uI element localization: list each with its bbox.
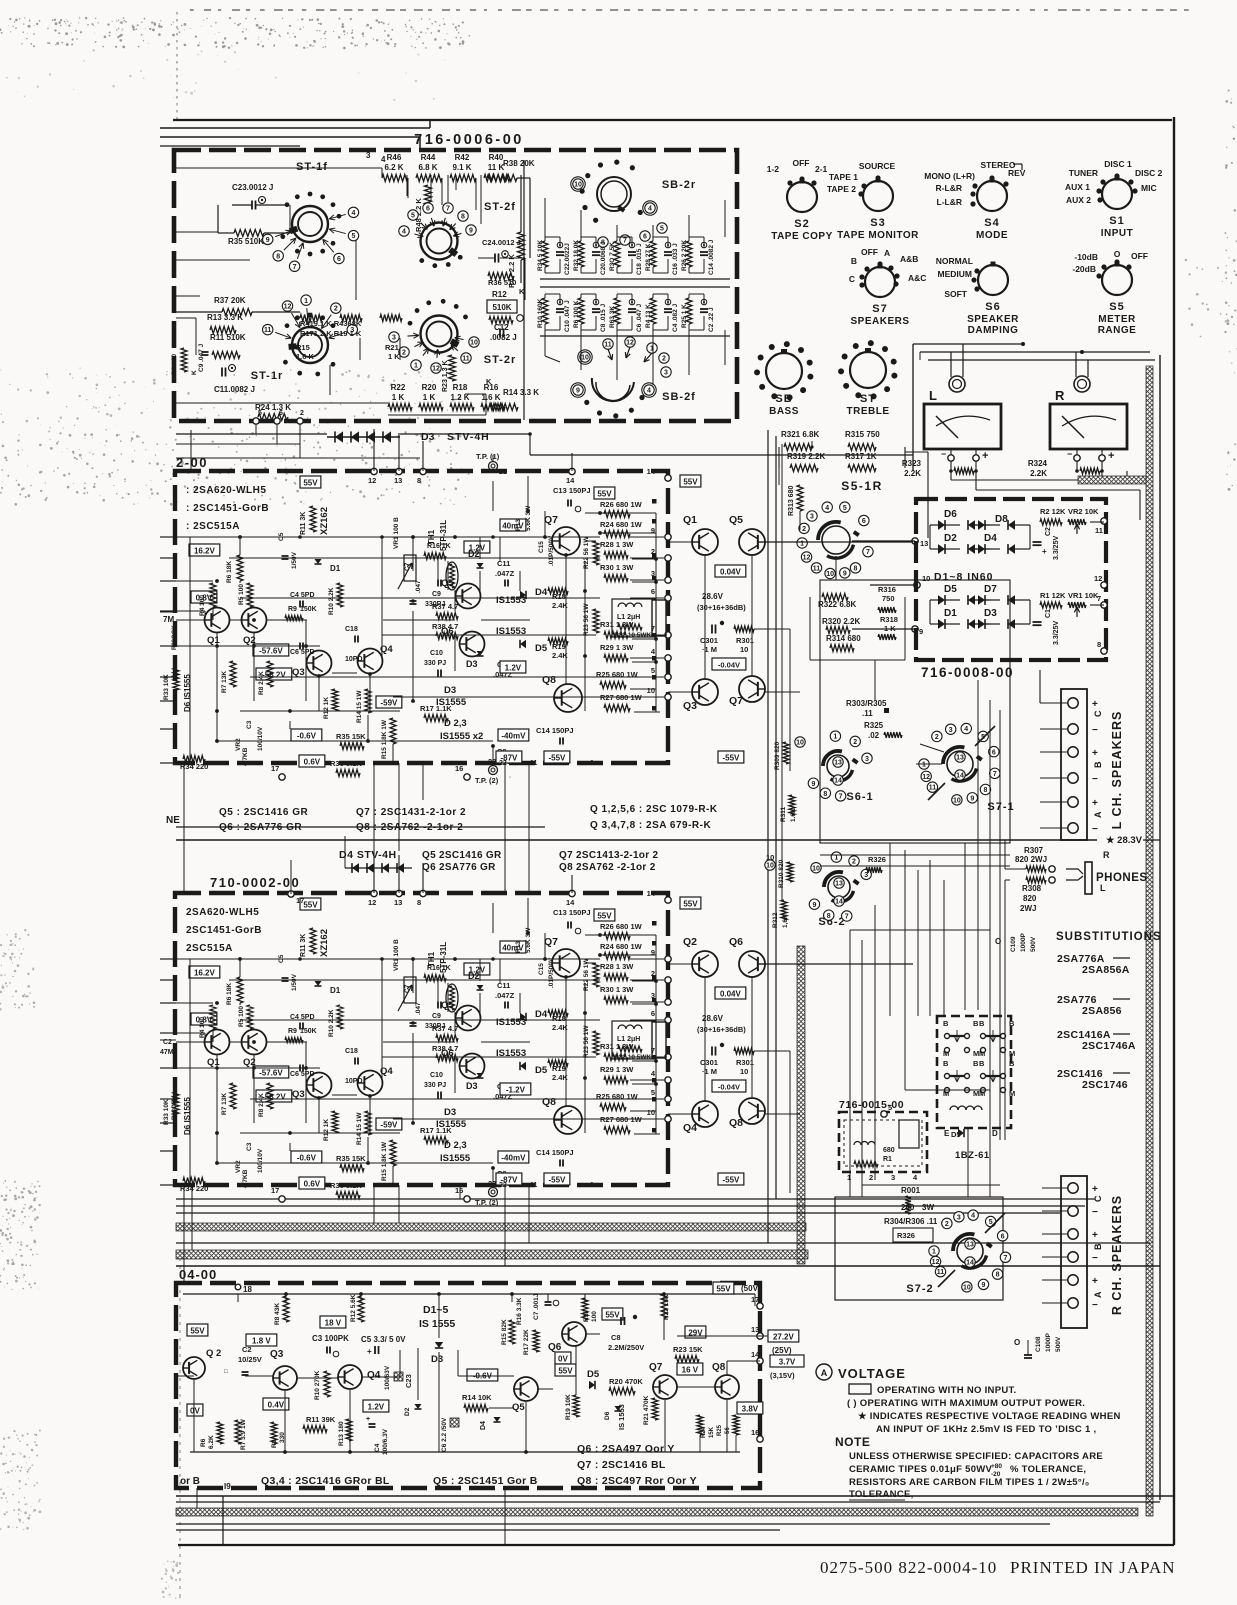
svg-text:C6 5PD: C6 5PD (290, 1071, 315, 1078)
svg-text:R14 15 1W: R14 15 1W (356, 690, 363, 723)
svg-text:TAPE 1: TAPE 1 (829, 172, 858, 182)
svg-text:.11: .11 (862, 709, 873, 718)
svg-text:9: 9 (576, 388, 580, 395)
svg-text:2: 2 (853, 739, 857, 746)
svg-text:Q5: Q5 (512, 1402, 525, 1413)
svg-text:3.7V: 3.7V (779, 1358, 796, 1367)
svg-text:14: 14 (647, 889, 656, 898)
svg-text:55V: 55V (716, 1285, 731, 1294)
svg-text:SB: SB (775, 393, 792, 405)
svg-text:R40: R40 (489, 153, 504, 162)
svg-text:R36 5.1K: R36 5.1K (330, 1181, 362, 1190)
svg-text:XZ162: XZ162 (319, 929, 330, 957)
svg-text:2.2K: 2.2K (904, 469, 921, 478)
svg-text:55V: 55V (303, 479, 318, 488)
svg-text:1000P: 1000P (1045, 1333, 1052, 1352)
svg-text:9: 9 (982, 1282, 986, 1289)
svg-text:-0.6V: -0.6V (297, 732, 317, 741)
svg-text:S1: S1 (1109, 215, 1124, 227)
svg-text:R-L&R: R-L&R (936, 183, 962, 193)
svg-text:R6 18K: R6 18K (226, 983, 233, 1005)
svg-text:R28 1 3W: R28 1 3W (600, 540, 634, 549)
svg-text:.047: .047 (415, 1002, 422, 1015)
svg-text:L CH. SPEAKERS: L CH. SPEAKERS (1110, 711, 1124, 830)
svg-text:( ) OPERATING WITH MAX: ( ) OPERATING WITH MAXIMUM OUTPUT POWER. (847, 1398, 1085, 1409)
svg-text:R20: R20 (422, 383, 437, 392)
svg-text:100/10V: 100/10V (257, 1148, 264, 1173)
svg-text:D4 STV-4H: D4 STV-4H (339, 849, 397, 861)
svg-text:11: 11 (530, 1182, 538, 1189)
svg-text:C6 5PD: C6 5PD (290, 649, 315, 656)
svg-text:1: 1 (834, 855, 838, 862)
svg-text:-20dB: -20dB (1072, 264, 1096, 274)
svg-text:R35 15K: R35 15K (336, 732, 366, 741)
svg-text:7: 7 (623, 238, 627, 245)
svg-text:16: 16 (455, 1186, 463, 1195)
svg-text:12: 12 (1094, 574, 1102, 583)
svg-text:C13 150PJ: C13 150PJ (553, 486, 591, 495)
svg-text:11: 11 (462, 356, 470, 363)
svg-text:R46: R46 (387, 153, 402, 162)
svg-text:-55V: -55V (548, 754, 566, 763)
svg-text:R37 4.7: R37 4.7 (432, 1024, 458, 1033)
svg-text:(25V): (25V) (772, 1346, 792, 1355)
svg-text:MIC: MIC (1141, 183, 1157, 193)
svg-text:7: 7 (866, 549, 870, 556)
svg-text:-55V: -55V (548, 1176, 566, 1185)
svg-text:IS1555: IS1555 (436, 697, 467, 708)
svg-text:6: 6 (426, 206, 430, 213)
svg-text:.047Z: .047Z (495, 569, 515, 578)
svg-text:R28 27 K: R28 27 K (645, 243, 652, 271)
svg-text:1BZ-61: 1BZ-61 (955, 1150, 990, 1161)
svg-text:R26 680 1W: R26 680 1W (600, 922, 643, 931)
svg-text:14: 14 (647, 467, 656, 476)
svg-text:27.2V: 27.2V (773, 1333, 795, 1342)
svg-text:-0.04V: -0.04V (718, 1083, 740, 1092)
svg-text:R24 680 1W: R24 680 1W (600, 942, 643, 951)
svg-text:9: 9 (970, 795, 974, 802)
svg-text:K: K (191, 370, 198, 375)
svg-text:R15 82K: R15 82K (501, 1319, 508, 1345)
svg-text:R15 1.8K 1W: R15 1.8K 1W (381, 719, 388, 759)
svg-text:R325: R325 (864, 721, 884, 730)
svg-text:13: 13 (956, 755, 964, 762)
svg-text:6: 6 (279, 410, 283, 417)
svg-text:-57.6V: -57.6V (259, 647, 283, 656)
svg-text:2.2K: 2.2K (1030, 469, 1047, 478)
svg-text:R304/R306 .11: R304/R306 .11 (884, 1217, 938, 1226)
svg-text:3: 3 (392, 335, 396, 342)
svg-text:R313 680: R313 680 (788, 486, 795, 516)
svg-text:5: 5 (258, 410, 262, 417)
svg-text:1.2V: 1.2V (505, 664, 522, 673)
svg-text:S7-2: S7-2 (906, 1283, 933, 1295)
svg-text:C14 150PJ: C14 150PJ (536, 1148, 574, 1157)
svg-text:Q8: Q8 (729, 1117, 743, 1129)
svg-text:330 PJ: 330 PJ (424, 1082, 446, 1089)
svg-text:+: + (1092, 748, 1098, 759)
svg-text:A: A (1093, 811, 1103, 818)
svg-text:D5: D5 (951, 1130, 961, 1139)
svg-text:R317 1K: R317 1K (845, 452, 877, 461)
svg-text:C8 .015 J: C8 .015 J (600, 303, 607, 332)
svg-text:13: 13 (394, 898, 402, 907)
svg-text:R326: R326 (868, 855, 886, 864)
svg-text:14: 14 (834, 778, 842, 785)
svg-text:DISC 2: DISC 2 (1135, 168, 1163, 178)
svg-text:R24 680 1W: R24 680 1W (600, 520, 643, 529)
svg-text:8: 8 (854, 565, 858, 572)
svg-text:1: 1 (922, 762, 926, 769)
svg-text:R35 510K: R35 510K (228, 237, 264, 246)
svg-text:12: 12 (368, 476, 376, 485)
svg-text:3: 3 (810, 514, 814, 521)
svg-text:6: 6 (651, 587, 655, 596)
svg-text:NORMAL: NORMAL (936, 256, 973, 266)
svg-text:2: 2 (300, 410, 304, 417)
svg-text:R171.2 K R19 1 K: R171.2 K R19 1 K (300, 329, 362, 338)
svg-text:Q6: Q6 (729, 936, 743, 948)
svg-text:13: 13 (834, 760, 842, 767)
svg-text:O: O (1114, 249, 1121, 259)
svg-text:(3,15V): (3,15V) (770, 1371, 795, 1380)
svg-text:D2: D2 (468, 971, 480, 981)
svg-text:0.6V: 0.6V (304, 1180, 321, 1189)
svg-text:L1 2μH: L1 2μH (617, 614, 640, 621)
svg-text:R23 1,3 K: R23 1,3 K (442, 360, 449, 392)
svg-text:6: 6 (337, 256, 341, 263)
svg-text:C: C (1093, 1195, 1103, 1202)
svg-text:10: 10 (581, 355, 589, 362)
svg-text:12: 12 (932, 1259, 940, 1266)
svg-text:Q8 2SA762 -2-1or 2: Q8 2SA762 -2-1or 2 (559, 862, 656, 873)
svg-text:TAPE MONITOR: TAPE MONITOR (837, 230, 919, 241)
svg-text:Q1: Q1 (683, 514, 697, 526)
svg-text:9.1 K: 9.1 K (452, 163, 471, 172)
svg-text:-40mV: -40mV (501, 732, 526, 741)
svg-text:AUX 2: AUX 2 (1066, 195, 1091, 205)
svg-text:2SC1746: 2SC1746 (1082, 1079, 1128, 1091)
svg-text:4: 4 (402, 229, 406, 236)
svg-text:9: 9 (812, 902, 816, 909)
svg-text:R315 750: R315 750 (845, 430, 880, 439)
svg-text:Q 1,2,5,6 : 2SC 1079-R-K: Q 1,2,5,6 : 2SC 1079-R-K (590, 804, 718, 815)
svg-text:C12: C12 (494, 323, 509, 332)
svg-text:5: 5 (888, 1103, 892, 1112)
svg-text:5: 5 (411, 213, 415, 220)
svg-text:C11: C11 (497, 559, 510, 568)
svg-text:R301: R301 (736, 1058, 754, 1067)
svg-text:.047: .047 (415, 580, 422, 593)
svg-text:SPEAKERS: SPEAKERS (850, 316, 909, 327)
svg-text:6: 6 (992, 749, 996, 756)
svg-text:R22: R22 (391, 383, 406, 392)
svg-text:C108: C108 (1035, 1336, 1042, 1352)
svg-text:2: 2 (334, 306, 338, 313)
svg-text:0.04V: 0.04V (720, 568, 742, 577)
svg-text:C20.0068 J: C20.0068 J (600, 241, 607, 275)
svg-text:VR1 100 B: VR1 100 B (393, 939, 400, 971)
svg-text:.047Z: .047Z (495, 991, 515, 1000)
svg-text:R7 13K: R7 13K (221, 1093, 228, 1115)
svg-text:100/6.3V: 100/6.3V (382, 1428, 389, 1455)
svg-text:10: 10 (470, 340, 478, 347)
svg-text:S6: S6 (985, 301, 1000, 313)
svg-text:R16 3.3K: R16 3.3K (516, 1297, 523, 1325)
svg-text:820 2WJ: 820 2WJ (1015, 855, 1047, 864)
svg-text:716-0008-00: 716-0008-00 (921, 665, 1014, 680)
svg-text:(30+16+36dB): (30+16+36dB) (697, 1025, 746, 1034)
svg-text:4: 4 (352, 210, 356, 217)
svg-text:R38 20K: R38 20K (503, 159, 535, 168)
svg-text:D3: D3 (431, 1354, 443, 1365)
svg-text:8: 8 (996, 1272, 1000, 1279)
svg-text:R11 3K: R11 3K (300, 934, 307, 957)
svg-text:R316: R316 (878, 585, 896, 594)
svg-text:10: 10 (812, 865, 820, 872)
svg-text:S6-1: S6-1 (846, 791, 873, 803)
svg-text:MEDIUM: MEDIUM (938, 269, 972, 279)
svg-text:10: 10 (766, 863, 774, 870)
svg-text:R8 2.4K: R8 2.4K (258, 671, 265, 695)
svg-text:2-1: 2-1 (815, 164, 828, 174)
svg-text:B: B (979, 1019, 985, 1028)
svg-text:Q7: Q7 (729, 695, 743, 707)
svg-text:D3: D3 (444, 1107, 456, 1118)
svg-text:4: 4 (381, 155, 386, 164)
svg-text:10: 10 (796, 740, 804, 747)
svg-text:500V: 500V (1030, 936, 1037, 952)
svg-text:C4 .082 J: C4 .082 J (672, 303, 679, 332)
svg-text:S5-1R: S5-1R (841, 479, 883, 493)
svg-text:R13 3.3 K: R13 3.3 K (207, 313, 243, 322)
svg-text:100/10V: 100/10V (257, 726, 264, 751)
svg-text:·1 M: ·1 M (702, 645, 717, 654)
svg-text:1-2: 1-2 (767, 164, 780, 174)
svg-text:-57.6V: -57.6V (259, 1069, 283, 1078)
svg-text:BASS: BASS (769, 406, 799, 417)
svg-text:13: 13 (966, 1242, 974, 1249)
svg-text:R314 680: R314 680 (826, 634, 861, 643)
svg-text:10PD: 10PD (345, 1078, 363, 1085)
svg-text:11: 11 (1095, 526, 1103, 535)
svg-text:Q8: Q8 (542, 1096, 556, 1108)
svg-text:2: 2 (945, 1221, 949, 1228)
svg-text:Q5 2SC1416 GR: Q5 2SC1416 GR (422, 850, 502, 861)
svg-text:R34 5 10K: R34 5 10K (537, 240, 544, 271)
svg-text:SOFT: SOFT (944, 289, 967, 299)
svg-text:1 K: 1 K (388, 352, 400, 361)
svg-text:R308: R308 (1022, 884, 1042, 893)
svg-text:CERAMIC TIPES 0.01μF 50WV: CERAMIC TIPES 0.01μF 50WV (849, 1464, 993, 1475)
svg-text:+: + (1092, 1276, 1098, 1287)
svg-text:3: 3 (651, 569, 655, 578)
svg-text:680: 680 (883, 1147, 895, 1154)
svg-text:O: O (995, 937, 1001, 946)
svg-text:R29 1 3W: R29 1 3W (600, 643, 634, 652)
svg-text:C3: C3 (246, 720, 253, 729)
svg-text:C22.0022J: C22.0022J (564, 243, 571, 275)
svg-text:-1.2V: -1.2V (506, 1086, 526, 1095)
svg-text:14: 14 (566, 898, 575, 907)
svg-text:2: 2 (869, 1173, 873, 1182)
svg-text:OFF: OFF (861, 247, 878, 257)
svg-text:-0.6V: -0.6V (297, 1154, 317, 1163)
svg-text:C15: C15 (538, 963, 545, 975)
svg-text:11: 11 (929, 785, 937, 792)
svg-text:100: 100 (591, 1311, 598, 1322)
svg-text:2: 2 (935, 734, 939, 741)
svg-text:R13: R13 (515, 519, 522, 531)
svg-text:Q7: Q7 (649, 1362, 663, 1373)
svg-text:510K: 510K (492, 303, 511, 312)
svg-text:Q3,4 : 2SC1416 GRor BL: Q3,4 : 2SC1416 GRor BL (261, 1475, 390, 1487)
svg-text:R12 5.6K: R12 5.6K (350, 1294, 357, 1322)
svg-text:R28 1 3W: R28 1 3W (600, 962, 634, 971)
svg-text:3: 3 (865, 756, 869, 763)
svg-text:100/63V: 100/63V (384, 1365, 391, 1390)
svg-text:DAMPING: DAMPING (968, 325, 1019, 336)
svg-text:TREBLE: TREBLE (847, 406, 890, 417)
svg-text:□: □ (224, 1369, 228, 1375)
svg-text:SB-2r: SB-2r (662, 179, 696, 191)
svg-text:R11 3K: R11 3K (300, 512, 307, 535)
svg-text:8: 8 (823, 791, 827, 798)
svg-text:D4: D4 (984, 533, 997, 544)
svg-text:D2: D2 (404, 1407, 411, 1416)
svg-text:A&B: A&B (900, 254, 918, 264)
svg-text:R: R (1055, 388, 1065, 403)
svg-text:+: + (1092, 1184, 1098, 1195)
svg-text:R32 10 5WK: R32 10 5WK (614, 632, 652, 639)
svg-text:AN INPUT OF 1KHz 2.5mV IS: AN INPUT OF 1KHz 2.5mV IS FED TO ’DISC 1… (876, 1424, 1096, 1435)
svg-text:·1 M: ·1 M (702, 1067, 717, 1076)
svg-text:PRINTED IN JAPAN: PRINTED IN JAPAN (1010, 1558, 1176, 1577)
svg-text:7M: 7M (163, 615, 174, 624)
svg-text:C11.0082 J: C11.0082 J (214, 385, 255, 394)
svg-text:11: 11 (937, 1269, 945, 1276)
svg-text:R13: R13 (515, 941, 522, 953)
svg-text:6: 6 (862, 518, 866, 525)
svg-text:5: 5 (651, 666, 655, 675)
svg-text:C3 100PK: C3 100PK (312, 1334, 349, 1343)
svg-text:8: 8 (417, 476, 421, 485)
svg-text:3: 3 (949, 727, 953, 734)
svg-text:14: 14 (956, 773, 964, 780)
svg-text:O: O (1014, 1338, 1020, 1347)
svg-text:R319 2.2K: R319 2.2K (787, 452, 825, 461)
svg-text:SOURCE: SOURCE (859, 161, 896, 171)
svg-text:R CH. SPEAKERS: R CH. SPEAKERS (1110, 1195, 1124, 1315)
svg-text:Q4: Q4 (367, 1370, 381, 1381)
svg-text:6.2K: 6.2K (208, 1435, 215, 1449)
svg-text:ST-1r: ST-1r (251, 370, 284, 382)
svg-text:% TOLERANCE,: % TOLERANCE, (1010, 1464, 1086, 1475)
svg-text:S7: S7 (872, 303, 887, 315)
svg-text:5: 5 (651, 1088, 655, 1097)
svg-text:T.P. (2): T.P. (2) (475, 776, 499, 785)
svg-text:11: 11 (604, 342, 612, 349)
svg-text:10: 10 (963, 1284, 971, 1291)
svg-text:C8: C8 (611, 1333, 621, 1342)
svg-text:3: 3 (651, 991, 655, 1000)
svg-text:R63 3K: R63 3K (609, 306, 616, 328)
svg-text:1 K: 1 K (392, 393, 405, 402)
svg-text:UNLESS OTHERWISE SPECIFIED:: UNLESS OTHERWISE SPECIFIED: CAPACITORS A… (849, 1451, 1103, 1462)
svg-text:3: 3 (891, 1173, 895, 1182)
svg-text:B: B (943, 1059, 949, 1068)
svg-text:1: 1 (833, 734, 837, 741)
svg-text:−: − (1092, 1207, 1098, 1218)
svg-text:VR1 10K: VR1 10K (1068, 591, 1099, 600)
svg-text:C15: C15 (538, 541, 545, 553)
svg-text:1: 1 (304, 298, 308, 305)
svg-text:STV-4H: STV-4H (447, 431, 490, 443)
svg-text:14: 14 (566, 476, 575, 485)
svg-text:1.6K: 1.6K (790, 808, 797, 822)
svg-text:R10 2.2K: R10 2.2K (328, 587, 335, 615)
svg-text:C10: C10 (430, 650, 443, 657)
svg-text:B: B (851, 256, 857, 266)
svg-text:4: 4 (971, 1213, 975, 1220)
svg-text:R2 12K: R2 12K (1040, 507, 1066, 516)
svg-text:D4: D4 (535, 1009, 548, 1020)
svg-text:0275-500 822-0004-10: 0275-500 822-0004-10 (820, 1558, 997, 1577)
svg-text:R312: R312 (772, 912, 779, 928)
svg-text:22: 22 (499, 1182, 507, 1189)
svg-text:R5 100: R5 100 (238, 1006, 245, 1027)
svg-text:716-0015-00: 716-0015-00 (839, 1099, 904, 1111)
svg-text:16: 16 (455, 764, 463, 773)
svg-text:7: 7 (993, 771, 997, 778)
svg-text:D6 IS1555: D6 IS1555 (183, 1097, 192, 1135)
svg-text:R33 10K: R33 10K (163, 674, 170, 700)
svg-text:C7: C7 (404, 562, 411, 571)
svg-text:A: A (1093, 1291, 1103, 1298)
svg-text:−: − (941, 449, 946, 459)
svg-text:R8 2.4K: R8 2.4K (258, 1093, 265, 1117)
svg-text:3.3/25V: 3.3/25V (1053, 536, 1060, 560)
svg-text:D6: D6 (604, 1411, 611, 1420)
svg-text:IS1555: IS1555 (436, 1119, 467, 1130)
svg-text:C10: C10 (430, 1072, 443, 1079)
svg-text:2: 2 (802, 526, 806, 533)
svg-text:820: 820 (1023, 894, 1037, 903)
svg-text:18: 18 (243, 1285, 252, 1294)
svg-text:R1 12K: R1 12K (1040, 591, 1066, 600)
svg-text:C23: C23 (404, 1374, 413, 1388)
svg-text:200: 200 (901, 1203, 915, 1212)
svg-text:R17 22K: R17 22K (523, 1329, 530, 1355)
svg-text:R32 18.0K: R32 18.0K (573, 240, 580, 271)
svg-text:VR2: VR2 (235, 1160, 242, 1173)
svg-text:OPERATING WITH NO INPUT.: OPERATING WITH NO INPUT. (877, 1385, 1017, 1396)
svg-text:3.8V: 3.8V (742, 1405, 759, 1414)
svg-text:R37 20K: R37 20K (214, 296, 246, 305)
svg-text:7: 7 (446, 206, 450, 213)
svg-text:Q6 : 2SA776 GR: Q6 : 2SA776 GR (219, 822, 302, 833)
svg-text:17: 17 (271, 764, 279, 773)
svg-text:C301: C301 (700, 636, 718, 645)
svg-text:6.8 K: 6.8 K (418, 163, 437, 172)
svg-text:R37 4.7: R37 4.7 (432, 602, 458, 611)
svg-text:C18: C18 (345, 626, 358, 633)
svg-text:55V: 55V (683, 478, 698, 487)
svg-text:2SA856A: 2SA856A (1082, 964, 1130, 976)
svg-text:R23 15K: R23 15K (673, 1345, 703, 1354)
svg-text:IS 1555: IS 1555 (419, 1318, 455, 1330)
